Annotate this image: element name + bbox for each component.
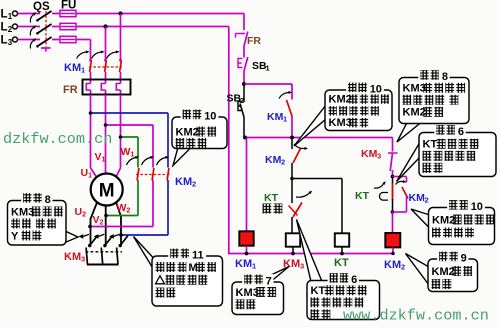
svg-text:V1: V1	[95, 151, 106, 164]
svg-text:FR: FR	[247, 35, 261, 47]
svg-text:11: 11	[192, 249, 204, 261]
svg-text:KM2: KM2	[329, 94, 352, 106]
svg-text:KM: KM	[265, 154, 282, 166]
svg-text:www.dzkfw.com.cn: www.dzkfw.com.cn	[343, 307, 489, 324]
svg-text:W1: W1	[121, 146, 135, 159]
svg-text:QS: QS	[33, 1, 50, 13]
svg-text:KM3: KM3	[236, 287, 259, 299]
svg-text:2: 2	[281, 158, 285, 167]
svg-text:dzkfw.com.cn: dzkfw.com.cn	[3, 130, 112, 148]
svg-text:3: 3	[300, 262, 304, 271]
svg-text:U2: U2	[75, 206, 87, 219]
svg-text:1: 1	[81, 66, 85, 75]
svg-text:KM3: KM3	[11, 206, 34, 218]
svg-text:9: 9	[461, 252, 467, 264]
svg-text:1: 1	[283, 115, 287, 124]
svg-text:3: 3	[81, 255, 85, 264]
svg-text:KM2: KM2	[432, 214, 455, 226]
svg-text:KM2: KM2	[403, 107, 426, 119]
svg-text:KM: KM	[267, 111, 284, 123]
svg-text:KM: KM	[64, 62, 81, 74]
svg-text:6: 6	[351, 274, 357, 286]
svg-text:3: 3	[377, 152, 381, 161]
svg-text:7: 7	[266, 275, 272, 287]
svg-text:6: 6	[458, 126, 464, 138]
svg-text:10: 10	[471, 201, 483, 213]
svg-text:2: 2	[425, 196, 429, 205]
svg-text:KM3: KM3	[403, 83, 426, 95]
svg-text:KM3: KM3	[329, 117, 352, 129]
svg-text:KT: KT	[334, 257, 349, 269]
svg-text:L: L	[1, 22, 8, 34]
svg-text:KM: KM	[361, 148, 378, 160]
svg-text:2: 2	[192, 180, 196, 189]
svg-text:KM: KM	[64, 251, 81, 263]
svg-text:2: 2	[240, 96, 244, 105]
svg-text:W2: W2	[117, 202, 131, 215]
svg-text:10: 10	[204, 110, 216, 122]
svg-text:1: 1	[252, 262, 256, 271]
svg-text:KT: KT	[423, 139, 438, 151]
svg-text:KM: KM	[409, 192, 426, 204]
svg-text:KM: KM	[235, 258, 252, 270]
svg-text:8: 8	[442, 71, 448, 83]
svg-text:KM: KM	[175, 176, 192, 188]
svg-text:L: L	[1, 9, 8, 21]
svg-text:KM: KM	[384, 259, 401, 271]
svg-text:10: 10	[370, 83, 382, 95]
svg-text:L: L	[1, 35, 8, 47]
svg-text:KT: KT	[311, 285, 326, 297]
svg-text:FU: FU	[61, 0, 76, 12]
svg-text:KM2: KM2	[176, 126, 199, 138]
svg-text:Y: Y	[11, 230, 19, 242]
svg-text:KM2: KM2	[432, 266, 455, 278]
svg-text:FR: FR	[63, 84, 78, 96]
svg-text:1: 1	[266, 64, 270, 73]
svg-text:2: 2	[401, 263, 405, 272]
svg-text:M: M	[99, 181, 115, 202]
svg-text:V2: V2	[93, 214, 104, 227]
svg-text:KT: KT	[264, 192, 279, 204]
svg-text:8: 8	[45, 194, 51, 206]
svg-text:KT: KT	[355, 190, 370, 202]
